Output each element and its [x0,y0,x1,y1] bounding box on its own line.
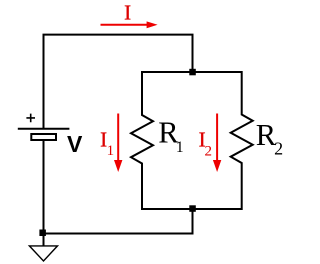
svg-text:I: I [124,1,131,25]
svg-text:2: 2 [274,138,283,158]
svg-text:1: 1 [107,143,115,159]
svg-text:V: V [67,131,83,157]
svg-text:2: 2 [205,143,213,159]
svg-text:1: 1 [176,139,184,156]
